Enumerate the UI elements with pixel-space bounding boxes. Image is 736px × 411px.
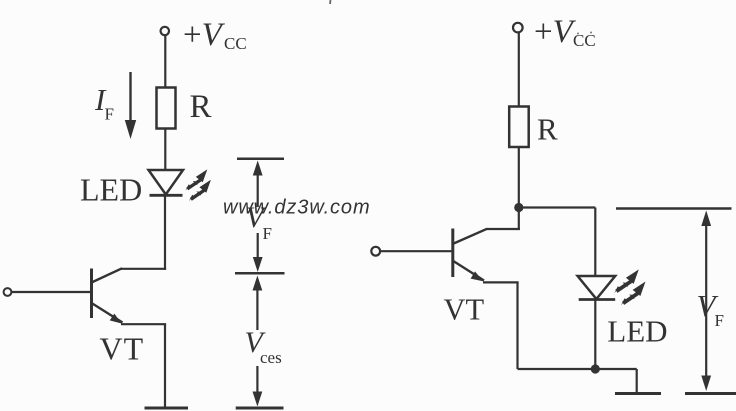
label IF (94, 82, 114, 124)
label VF (left dimension) (246, 201, 272, 243)
label VF (right dimension) (697, 288, 724, 330)
stray scan mark top (329, 0, 332, 4)
svg-text:R: R (537, 112, 558, 147)
svg-text:F: F (715, 311, 724, 330)
dimension arrow down (Vces) (253, 366, 263, 407)
dimension bar top (VF right) (616, 207, 732, 210)
dimension arrow down (VF left) (253, 233, 263, 272)
svg-text:R: R (190, 89, 212, 125)
wire to ground (right) (636, 369, 638, 393)
wire input to base (left) (11, 291, 91, 293)
dimension bar bottom (left) (236, 407, 284, 410)
wire collector horizontal (right) (486, 228, 520, 230)
dimension arrow up (VF left) (253, 161, 263, 208)
svg-text:VT: VT (444, 293, 485, 327)
wire LED cathode to bottom node (right) (594, 300, 596, 370)
dimension arrow line (VF right) (701, 211, 711, 392)
svg-text:CC: CC (573, 31, 596, 50)
transistor VT (right) (453, 229, 488, 282)
label +VCC (left) (183, 17, 247, 53)
wire resistor to node (right) (518, 147, 520, 208)
svg-text:LED: LED (80, 172, 142, 208)
label +VCC (right) (534, 14, 596, 50)
wire emitter to ground (left) (121, 324, 166, 408)
terminal +VCC (left) (161, 27, 169, 35)
wire VCC to resistor (left) (164, 36, 166, 89)
resistor R (left) (157, 88, 176, 129)
svg-text:VT: VT (100, 331, 145, 367)
svg-text:+V: +V (534, 14, 577, 50)
wire emitter down (right) (483, 282, 519, 369)
dimension bar top (VF left) (237, 157, 284, 160)
svg-text:LED: LED (607, 314, 667, 349)
ground (right) (615, 392, 661, 395)
svg-text:ces: ces (260, 348, 282, 367)
dimension bar bottom (right) (685, 392, 736, 395)
wire VCC to resistor (right) (518, 32, 520, 106)
resistor R (right) (509, 107, 529, 148)
input terminal (right) (371, 247, 380, 256)
wire resistor to LED (left) (164, 129, 166, 171)
dimension bar middle (left) (235, 272, 285, 275)
wire bottom horizontal (right) (518, 368, 637, 370)
node junction bottom (right) (591, 364, 600, 373)
dimension arrow up (Vces) (253, 276, 263, 331)
wire LED cathode to collector (left) (164, 195, 166, 270)
svg-text:F: F (105, 105, 114, 124)
wire input to base (right) (380, 250, 452, 252)
wire node down to collector (right) (518, 208, 520, 231)
wire LED branch down to diode (right) (594, 208, 596, 277)
current arrow IF (125, 72, 136, 139)
svg-text:F: F (263, 224, 272, 243)
LED light-emission arrows (right) (614, 269, 645, 305)
svg-text:+V: +V (183, 17, 226, 53)
wire collector horizontal (left) (121, 268, 167, 270)
label Vces (245, 326, 282, 367)
node junction top (right) (514, 203, 523, 212)
wire node to LED branch (right) (519, 206, 596, 208)
LED diode (left) (149, 170, 184, 195)
terminal +VCC (right) (513, 23, 523, 33)
LED light-emission arrows (left) (185, 169, 210, 201)
svg-text:CC: CC (224, 34, 247, 53)
input terminal (left) (4, 288, 12, 296)
ground (left) (145, 407, 189, 410)
LED diode (right) (578, 276, 616, 300)
transistor VT (left) (92, 268, 123, 323)
